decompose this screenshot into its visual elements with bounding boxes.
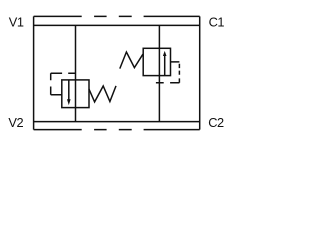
relief valve RV2 spring xyxy=(120,52,143,69)
relief valve RV2 pilot line (dashed) xyxy=(156,62,180,83)
enclosure bottom edge (dashed) xyxy=(34,129,200,131)
relief valve RV1 body (left) xyxy=(62,80,89,108)
svg-text:C2: C2 xyxy=(208,115,224,130)
relief valve RV1 arrowhead xyxy=(67,99,71,105)
enclosure left edge xyxy=(33,16,35,129)
relief valve RV1 flow arrow shaft (down) xyxy=(68,80,70,100)
wire V2-C2 port line xyxy=(34,121,200,123)
relief valve RV1 pilot line (dashed) xyxy=(51,73,76,95)
svg-text:V1: V1 xyxy=(9,15,24,30)
wire right branch vertical xyxy=(158,25,160,121)
relief valve RV2 flow arrow shaft (up) xyxy=(164,55,166,75)
svg-text:V2: V2 xyxy=(8,115,23,130)
enclosure top edge (dashed) xyxy=(34,15,200,17)
svg-text:C1: C1 xyxy=(209,15,225,30)
enclosure right edge xyxy=(199,16,201,129)
wire V1-C1 port line xyxy=(34,24,200,26)
relief valve RV1 spring xyxy=(89,86,116,102)
relief valve RV2 arrowhead xyxy=(163,51,167,56)
wire left branch vertical xyxy=(75,25,77,121)
relief valve RV2 body (right) xyxy=(143,48,170,75)
